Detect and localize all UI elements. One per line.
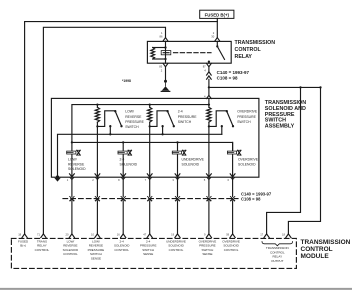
in-line connector bbox=[121, 197, 125, 202]
svg-text:5: 5 bbox=[204, 178, 206, 182]
svg-text:17: 17 bbox=[260, 232, 263, 236]
wire bbox=[71, 201, 73, 234]
svg-text:C108 = 98: C108 = 98 bbox=[217, 76, 238, 81]
svg-text:CONTROL: CONTROL bbox=[35, 248, 50, 252]
svg-text:CONTROL: CONTROL bbox=[114, 248, 129, 252]
node low/reverse sense bbox=[96, 125, 98, 127]
page rule bbox=[0, 288, 352, 290]
svg-text:1: 1 bbox=[67, 178, 69, 182]
svg-text:B(+): B(+) bbox=[20, 244, 26, 248]
brace pins 17/18 bbox=[262, 242, 293, 246]
svg-text:PRESSURE: PRESSURE bbox=[237, 115, 256, 119]
svg-text:C108 = 98: C108 = 98 bbox=[241, 196, 261, 201]
wire bbox=[122, 177, 124, 196]
TCM pin 10 bbox=[91, 232, 100, 237]
svg-text:REVERSE: REVERSE bbox=[68, 162, 85, 166]
svg-text:8: 8 bbox=[118, 178, 120, 182]
svg-text:30: 30 bbox=[211, 35, 214, 39]
wire bbox=[232, 201, 234, 234]
relay pin 85 (bottom left) bbox=[159, 63, 168, 72]
assembly pin 3 bbox=[172, 174, 180, 182]
wire bbox=[232, 177, 234, 196]
svg-text:TRANSMISSION: TRANSMISSION bbox=[235, 40, 276, 46]
dashed in-line connector line bbox=[63, 198, 238, 200]
svg-text:ASSEMBLY: ASSEMBLY bbox=[265, 123, 295, 129]
svg-text:86: 86 bbox=[160, 35, 163, 39]
svg-text:2: 2 bbox=[161, 68, 163, 72]
overdrive solenoid bbox=[227, 142, 241, 176]
transmission control relay box bbox=[147, 41, 231, 63]
wire bbox=[177, 201, 179, 234]
svg-text:OVERDRIVE: OVERDRIVE bbox=[238, 157, 259, 161]
TCM pin 9 bbox=[204, 232, 212, 237]
wire switch return to case ground bbox=[58, 134, 222, 176]
svg-text:LOW/: LOW/ bbox=[68, 157, 77, 161]
svg-text:SOLENOID: SOLENOID bbox=[120, 162, 138, 166]
transmission control module dashed box bbox=[11, 238, 296, 268]
svg-text:CONTROL: CONTROL bbox=[169, 248, 184, 252]
svg-text:59: 59 bbox=[226, 232, 229, 236]
node feed/underdrive solenoid bbox=[176, 141, 178, 143]
2-4 pressure switch bbox=[150, 110, 175, 134]
wire bbox=[96, 177, 98, 196]
svg-text:SWITCH: SWITCH bbox=[178, 120, 192, 124]
wire relay coil pin 86 to TCM pin 71 (left run) bbox=[43, 27, 165, 234]
svg-text:RELAY: RELAY bbox=[235, 54, 253, 60]
relay switch arm (pin 30 to pin 87, open) bbox=[208, 41, 225, 63]
wire fused B(+) feed to TCM pin 18 (left run) bbox=[25, 22, 218, 234]
svg-text:87: 87 bbox=[203, 64, 206, 68]
assembly pin 8 bbox=[118, 174, 126, 182]
svg-text:2-4: 2-4 bbox=[120, 157, 125, 161]
svg-text:20: 20 bbox=[66, 232, 69, 236]
relay pin 87 (bottom right) bbox=[203, 63, 212, 72]
fused B(+) supply box bbox=[200, 10, 234, 18]
sense wire low/reverse down bbox=[96, 126, 98, 176]
resistor (2-4 pressure switch) bbox=[148, 105, 152, 127]
TCM pin 20 bbox=[66, 232, 75, 237]
wire to TCM pin 17 bbox=[267, 87, 301, 234]
node overdrive sense bbox=[208, 125, 210, 127]
relay pin 86 (top left) bbox=[160, 31, 168, 41]
assembly pin 7 bbox=[145, 174, 153, 182]
svg-text:SENSE: SENSE bbox=[143, 252, 153, 256]
svg-text:3: 3 bbox=[172, 178, 174, 182]
assembly pin 2 bbox=[92, 174, 100, 182]
svg-text:C140 = 1993-97: C140 = 1993-97 bbox=[217, 70, 250, 75]
assembly pin 1 bbox=[67, 174, 75, 182]
wire bbox=[149, 177, 151, 196]
node bus1/resistor LR bbox=[96, 103, 98, 105]
svg-text:UNDERDRIVE: UNDERDRIVE bbox=[182, 157, 205, 161]
relay pin 30 (top right) bbox=[211, 31, 219, 41]
svg-text:MODULE: MODULE bbox=[301, 253, 330, 260]
svg-text:CONTROL: CONTROL bbox=[301, 246, 333, 253]
svg-text:18: 18 bbox=[18, 232, 21, 236]
wire bbox=[149, 201, 151, 234]
svg-text:SOLENOID: SOLENOID bbox=[182, 162, 200, 166]
svg-text:2: 2 bbox=[92, 178, 94, 182]
ground (relay) bbox=[161, 80, 170, 92]
node feed/LR solenoid bbox=[71, 141, 73, 143]
node 2-4 sense bbox=[149, 125, 151, 127]
svg-text:SWITCH: SWITCH bbox=[237, 120, 251, 124]
underdrive solenoid bbox=[172, 142, 186, 176]
node: relay output junction bbox=[208, 86, 210, 88]
in-line connector bbox=[148, 197, 152, 202]
TCM pin 71 bbox=[37, 232, 46, 237]
wire to TCM pin 18 bbox=[288, 87, 320, 234]
in-line connector C140 (relay output) bbox=[207, 72, 212, 79]
wire bbox=[96, 201, 98, 234]
svg-text:2: 2 bbox=[213, 31, 215, 35]
svg-text:2-4: 2-4 bbox=[178, 110, 183, 114]
svg-text:REVERSE: REVERSE bbox=[125, 115, 142, 119]
resistor (low/reverse pressure switch) bbox=[95, 105, 99, 127]
transmission solenoid and pressure switch assembly box bbox=[51, 98, 259, 177]
svg-text:SWITCH: SWITCH bbox=[125, 125, 139, 129]
svg-text:OVERDRIVE: OVERDRIVE bbox=[237, 110, 258, 114]
svg-text:*1998: *1998 bbox=[122, 79, 131, 83]
sense wire overdrive down bbox=[208, 126, 210, 176]
svg-text:LOW/: LOW/ bbox=[125, 110, 134, 114]
node bus1 feed entry bbox=[208, 103, 210, 105]
in-line connector bbox=[230, 197, 234, 202]
svg-text:71: 71 bbox=[37, 232, 40, 236]
svg-text:9: 9 bbox=[204, 232, 206, 236]
TCM pin 47 bbox=[143, 232, 152, 237]
svg-text:1: 1 bbox=[161, 31, 163, 35]
in-line connector bbox=[175, 197, 179, 202]
wire bbox=[122, 201, 124, 234]
svg-text:SENSE: SENSE bbox=[91, 256, 101, 260]
wire relay output to TCM pins 17/18 (right run) bbox=[209, 86, 321, 88]
svg-text:16: 16 bbox=[117, 232, 120, 236]
svg-text:47: 47 bbox=[143, 232, 146, 236]
wire bbox=[208, 201, 210, 234]
in-line connector bbox=[70, 197, 74, 202]
node return/2-4 switch bbox=[161, 133, 163, 135]
TCM pin 18 bbox=[18, 232, 27, 237]
low/reverse pressure switch bbox=[97, 110, 122, 134]
wire solenoid feed bus bbox=[72, 142, 233, 150]
wire relay pin 85 to ground bbox=[165, 67, 167, 81]
wire from fused B(+) down to relay pin 30 bbox=[216, 18, 218, 37]
relay dashed actuator link bbox=[174, 52, 212, 54]
svg-text:85: 85 bbox=[159, 64, 162, 68]
svg-text:SOLENOID: SOLENOID bbox=[68, 167, 86, 171]
svg-text:19: 19 bbox=[171, 232, 174, 236]
relay suppression element bbox=[161, 51, 171, 55]
svg-text:CONTROL: CONTROL bbox=[63, 252, 78, 256]
svg-text:4: 4 bbox=[204, 68, 206, 72]
TCM pin 59 bbox=[226, 232, 235, 237]
wire feed bus (top) bbox=[72, 99, 209, 143]
svg-text:CONTROL: CONTROL bbox=[235, 47, 262, 53]
svg-text:OUTPUT: OUTPUT bbox=[271, 259, 284, 263]
resistor (overdrive pressure switch) bbox=[207, 105, 211, 127]
relay coil bbox=[151, 41, 167, 63]
TCM pin 18 bbox=[282, 232, 291, 237]
svg-text:6: 6 bbox=[228, 178, 230, 182]
svg-text:SENSE: SENSE bbox=[202, 252, 212, 256]
node feed/2-4 solenoid bbox=[122, 141, 124, 143]
wire relay output down to assembly feed pin bbox=[208, 79, 210, 95]
wire bbox=[208, 177, 210, 196]
assembly pin 6 bbox=[228, 174, 236, 182]
svg-text:18: 18 bbox=[282, 232, 285, 236]
overdrive pressure switch bbox=[209, 110, 234, 134]
wire relay pin 87 to connector C140 bbox=[208, 67, 210, 72]
svg-text:SOLENOID: SOLENOID bbox=[238, 162, 256, 166]
wire bbox=[177, 177, 179, 196]
ground (assembly case) bbox=[54, 175, 61, 181]
sense wire 2-4 down bbox=[149, 126, 151, 176]
svg-text:CONTROL: CONTROL bbox=[224, 248, 239, 252]
TCM pin 16 bbox=[117, 232, 126, 237]
node at x=320 bbox=[319, 86, 321, 88]
svg-text:FUSED B(+): FUSED B(+) bbox=[205, 13, 230, 18]
in-line connector bbox=[95, 197, 99, 202]
node at x=300 bbox=[299, 86, 301, 88]
svg-text:PRESSURE: PRESSURE bbox=[178, 115, 197, 119]
svg-text:7: 7 bbox=[145, 178, 147, 182]
TCM pin 19 bbox=[171, 232, 180, 237]
node bus1/resistor 2-4 bbox=[149, 103, 151, 105]
TCM pin 17 bbox=[260, 232, 269, 237]
2-4 solenoid bbox=[118, 142, 132, 176]
svg-text:TRANSMISSION: TRANSMISSION bbox=[301, 239, 351, 246]
assembly pin 5 bbox=[204, 174, 212, 182]
node return/LR switch bbox=[109, 133, 111, 135]
low/reverse solenoid bbox=[67, 142, 81, 176]
svg-text:10: 10 bbox=[91, 232, 94, 236]
svg-text:PRESSURE: PRESSURE bbox=[125, 120, 144, 124]
wire bbox=[71, 177, 73, 196]
in-line connector bbox=[207, 197, 211, 202]
assembly feed pin 4 (top) bbox=[204, 95, 211, 99]
